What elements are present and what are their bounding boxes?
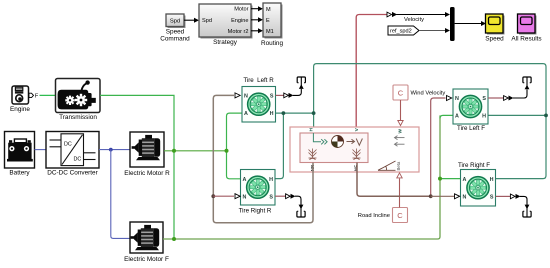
svg-text:Strategy: Strategy xyxy=(213,39,238,46)
svg-text:Tire Left R: Tire Left R xyxy=(243,77,274,84)
goto tag ref_spd2 xyxy=(388,26,450,35)
tire force icon front (inside vehicle body) xyxy=(353,149,361,160)
block DC-DC Converter xyxy=(46,132,99,177)
scope All Results xyxy=(511,14,541,43)
wire Strategy Engine to Routing E xyxy=(251,17,263,22)
scope Speed xyxy=(485,14,504,43)
incline icon xyxy=(378,161,396,170)
wire NF riser to Tire Left F N xyxy=(431,98,446,196)
svg-text:Wind Velocity: Wind Velocity xyxy=(411,91,446,97)
tire force icon rear (inside vehicle body) xyxy=(309,149,317,160)
block Battery xyxy=(5,132,35,177)
wire Speed Command to Strategy xyxy=(184,18,199,23)
block Strategy xyxy=(199,4,253,46)
block Speed Command xyxy=(160,14,190,43)
wire to Tire Right R A xyxy=(227,151,241,179)
wire Electric Motor R output xyxy=(164,150,227,152)
junction teal 1 xyxy=(282,111,286,115)
mux bar xyxy=(450,7,455,41)
junction electrical xyxy=(109,148,113,152)
wire to Tire Left F A xyxy=(440,115,453,118)
open arrow into Tire Left R N xyxy=(235,93,240,98)
wire DC-DC to Electric Motor R with branch xyxy=(99,149,130,151)
wire driveline: Transmission down xyxy=(100,95,174,239)
svg-text:Speed: Speed xyxy=(485,36,504,43)
svg-text:H: H xyxy=(270,111,274,117)
transmission gear small xyxy=(65,95,74,105)
svg-text:Electric Motor F: Electric Motor F xyxy=(124,256,169,263)
wire NF to Tire Right F N xyxy=(431,195,455,197)
block Electric Motor F xyxy=(124,222,169,263)
block Electric Motor R xyxy=(124,132,170,177)
svg-text:S: S xyxy=(490,195,494,201)
svg-text:Spd: Spd xyxy=(202,18,212,24)
svg-text:Speed: Speed xyxy=(166,29,185,36)
svg-text:H: H xyxy=(490,177,494,183)
svg-text:F: F xyxy=(35,94,39,100)
teal branch down to Tire Right R H xyxy=(275,113,283,179)
svg-text:Motor r2: Motor r2 xyxy=(228,29,249,35)
svg-text:A: A xyxy=(243,177,247,183)
svg-text:NF: NF xyxy=(354,165,359,171)
junction green 4 xyxy=(438,177,442,181)
svg-text:Tire Right F: Tire Right F xyxy=(458,162,490,169)
junction green 2 xyxy=(172,237,176,241)
svg-text:Motor: Motor xyxy=(234,7,248,13)
svg-text:W: W xyxy=(398,128,404,133)
svg-text:ref_spd2: ref_spd2 xyxy=(390,29,412,35)
block Tire Left F xyxy=(453,89,488,132)
svg-text:Battery: Battery xyxy=(9,169,30,176)
wire NF routing (normal force front) xyxy=(357,163,431,197)
wire NR routing (normal force rear) xyxy=(213,95,313,222)
wire Tire Right F S to terminator xyxy=(496,194,532,217)
wire Strategy M to Routing M xyxy=(251,6,263,11)
block Tire Right R xyxy=(239,170,275,215)
wire Electric Motor F output long bottom line xyxy=(163,115,440,239)
svg-text:Electric Motor R: Electric Motor R xyxy=(124,170,170,177)
svg-text:A: A xyxy=(244,111,248,117)
wire to Tire Left R A xyxy=(227,113,243,151)
CG symbol xyxy=(332,136,344,148)
svg-text:S: S xyxy=(270,94,274,100)
svg-text:Road Incline: Road Incline xyxy=(358,213,390,219)
svg-text:N: N xyxy=(455,96,459,102)
svg-text:Command: Command xyxy=(160,36,190,43)
svg-text:S: S xyxy=(482,96,486,102)
wire Tire Right R S to terminator xyxy=(275,194,305,217)
svg-text:Spd: Spd xyxy=(170,19,180,25)
block Engine xyxy=(10,86,30,113)
transmission gear large xyxy=(75,94,87,106)
junction green 1 xyxy=(172,149,176,153)
teal drop into Vehicle Body H port xyxy=(313,113,315,133)
vehicle body inner box xyxy=(300,133,368,163)
svg-text:N: N xyxy=(463,195,467,201)
svg-text:H: H xyxy=(269,177,273,183)
wire Tire Left R S to terminator xyxy=(276,77,306,98)
svg-text:DC: DC xyxy=(74,156,82,162)
block Tire Right F xyxy=(458,162,496,206)
junction teal 3 xyxy=(544,114,548,118)
block Tire Left R xyxy=(242,77,276,122)
svg-text:M1: M1 xyxy=(266,29,274,35)
wire Engine to Transmission xyxy=(40,94,57,96)
block Vehicle Body (outer) xyxy=(290,127,419,172)
svg-text:N: N xyxy=(244,94,248,100)
svg-text:DC: DC xyxy=(64,141,72,147)
wire mux to Speed scope xyxy=(455,21,486,26)
wire to Tire Right F A xyxy=(440,178,461,180)
wire branch down to Electric Motor F xyxy=(111,150,130,239)
open arrow into Tire Left F N xyxy=(447,96,452,101)
svg-text:Engine: Engine xyxy=(10,106,30,113)
wire Velocity (physical signal from Vehicle Body V port) xyxy=(356,12,450,127)
svg-text:C: C xyxy=(398,89,404,98)
svg-text:Routing: Routing xyxy=(261,40,283,47)
block Transmission xyxy=(56,79,101,121)
svg-text:All Results: All Results xyxy=(511,36,541,43)
svg-text:S: S xyxy=(269,194,273,200)
svg-text:C: C xyxy=(397,211,403,220)
teal riser and top run to right side xyxy=(314,64,546,116)
svg-text:Transmission: Transmission xyxy=(59,114,97,121)
svg-text:Tire Right R: Tire Right R xyxy=(239,207,272,214)
teal H-network: Tire Left R H to junctions xyxy=(276,112,314,114)
svg-text:M: M xyxy=(266,7,271,13)
teal Tire Left F H stub xyxy=(488,114,546,116)
junction green 3 xyxy=(225,149,229,153)
open arrow into Tire Right F N xyxy=(455,194,460,199)
svg-text:Beta: Beta xyxy=(396,161,401,170)
svg-text:A: A xyxy=(455,114,459,120)
constant C Road Incline xyxy=(358,208,408,223)
svg-text:H: H xyxy=(482,114,486,120)
wire Road Incline to beta port xyxy=(397,173,402,208)
svg-text:Engine: Engine xyxy=(231,18,248,24)
junction teal 2 xyxy=(312,111,316,115)
wire Wind Velocity to W port xyxy=(398,100,403,126)
block Routing xyxy=(261,3,283,47)
svg-text:A: A xyxy=(463,177,467,183)
svg-text:Velocity: Velocity xyxy=(404,17,424,23)
wire Strategy Motor r2 to Routing M1 xyxy=(251,28,263,33)
svg-text:E: E xyxy=(266,18,270,24)
junction NF xyxy=(429,194,433,198)
teal down to Tire Right F H xyxy=(496,115,547,178)
svg-text:N: N xyxy=(243,194,247,200)
svg-text:DC-DC Converter: DC-DC Converter xyxy=(47,169,98,176)
V output arrow inside vehicle body xyxy=(347,139,363,146)
open arrow into Tire Right R N xyxy=(235,194,240,199)
wire Tire Left F S to terminator xyxy=(488,77,531,101)
wire Battery to DC-DC Converter xyxy=(35,149,47,151)
port F of Engine xyxy=(29,93,39,99)
svg-text:Tire Left F: Tire Left F xyxy=(457,125,485,132)
constant C Wind Velocity xyxy=(393,85,445,100)
junction NR to Tire Right R N xyxy=(211,194,215,198)
svg-text:H: H xyxy=(308,127,314,131)
vehicle body internal H lead to CG xyxy=(313,133,321,142)
